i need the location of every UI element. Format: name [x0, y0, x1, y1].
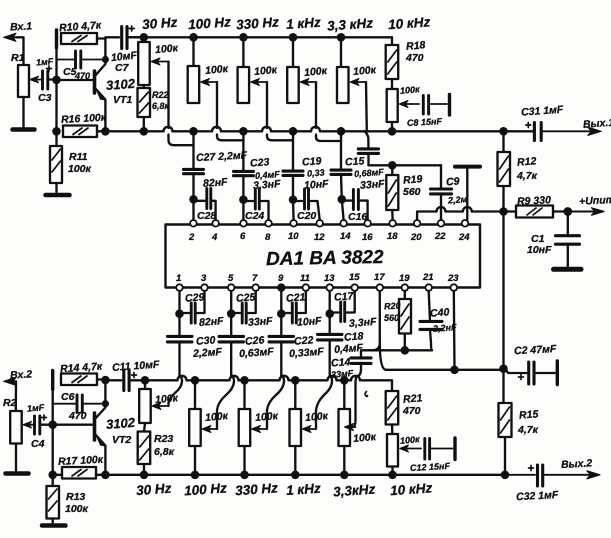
resistor 100к under R18: [391, 79, 393, 89]
capacitor C25 33нF loop to pin 7: [231, 291, 256, 313]
ground under R2: [6, 471, 29, 476]
svg-text:24: 24: [458, 232, 470, 243]
svg-text:R13: R13: [66, 491, 85, 503]
R2 wiper arrow: [27, 424, 35, 426]
svg-text:100к: 100к: [254, 64, 278, 78]
capacitor C28 82нF loop to pin 4: [194, 201, 216, 220]
wiper wire 1kHz down to band D cap: [315, 82, 317, 128]
wire line D to C2 junction: [386, 369, 504, 371]
capacitor C22 0,33мF: [280, 314, 282, 336]
svg-text:560: 560: [403, 186, 421, 198]
band E series capacitor (3,3kHz): [358, 147, 378, 150]
connector C22 to 330Hz wiper: [267, 376, 284, 430]
svg-text:+Uпит: +Uпит: [579, 194, 611, 208]
resistor R11 body (100k to ground): [50, 146, 62, 183]
svg-text:82нF: 82нF: [199, 315, 225, 329]
svg-text:R15: R15: [519, 408, 539, 421]
svg-text:1 кHz: 1 кHz: [286, 481, 322, 498]
svg-text:8: 8: [265, 232, 271, 243]
capacitor C3 (1mF electrolytic): [41, 71, 44, 89]
R14 left terminal bar: [51, 371, 54, 390]
svg-text:33нF: 33нF: [248, 315, 274, 329]
wire R2 to ground: [15, 444, 17, 472]
band B bottom column pin5: [230, 291, 232, 314]
resistor R1 body: [18, 65, 29, 97]
svg-text:С12 15нF: С12 15нF: [410, 461, 451, 473]
svg-text:30 Hz: 30 Hz: [142, 15, 178, 32]
capacitor C17 3,3нF loop to pin 15: [330, 291, 355, 313]
wire R1 to ground: [22, 97, 24, 127]
capacitor C26 0,63мF: [230, 314, 232, 336]
capacitor C8 15nF: [422, 96, 425, 115]
resistor R19 560 body: [391, 165, 393, 175]
resistor R2 body: [10, 411, 22, 444]
resistor R16 body (100k in bus): [63, 126, 97, 138]
capacitor C32 1мF in ch2 output: [505, 474, 535, 476]
ch1 output bus y=131.3: [97, 130, 164, 132]
svg-text:15: 15: [349, 272, 360, 283]
potentiometer 330Hz ch2 body: [243, 380, 245, 409]
svg-text:10 кHz: 10 кHz: [390, 480, 433, 498]
svg-text:С25: С25: [236, 291, 256, 304]
connector C26 to 100Hz wiper: [217, 376, 234, 430]
svg-text:19: 19: [399, 273, 410, 284]
svg-text:82нF: 82нF: [203, 176, 229, 190]
svg-text:330 Hz: 330 Hz: [235, 480, 279, 498]
ground under R13: [42, 523, 66, 528]
capacitor C12 15нF: [423, 439, 426, 460]
ground under R11: [46, 193, 70, 198]
svg-text:R23: R23: [154, 433, 173, 445]
svg-text:С19: С19: [302, 155, 322, 168]
svg-text:3,3 кHz: 3,3 кHz: [327, 15, 374, 33]
svg-text:3,3нF: 3,3нF: [253, 178, 282, 192]
capacitor C14 33мF: [351, 356, 371, 359]
svg-text:R17 100к: R17 100к: [58, 454, 104, 468]
supply arrow +Uпит: [568, 211, 596, 213]
wiper arrow on 100к (10kHz): [404, 103, 419, 105]
wire R12 column down: [502, 212, 504, 369]
wiper wire 30Hz down to band A cap: [167, 62, 169, 129]
svg-text:4: 4: [211, 232, 218, 243]
R10 left terminal bar: [55, 30, 58, 48]
capacitor C15 0,68мF: [331, 169, 351, 172]
transistor VT1 (KT3102): [93, 71, 97, 93]
svg-text:С40: С40: [430, 306, 450, 319]
potentiometer 100Hz (100k) body: [192, 37, 194, 66]
capacitor C2 47мF: [504, 369, 527, 373]
svg-text:16: 16: [362, 232, 373, 243]
capacitor C21 10нF loop to pin 11: [281, 291, 306, 313]
svg-text:3,3кHz: 3,3кHz: [333, 482, 376, 500]
svg-text:Вых.2: Вых.2: [561, 457, 593, 471]
svg-text:100к: 100к: [68, 163, 92, 175]
svg-text:6,8к: 6,8к: [154, 446, 175, 458]
top bus wire from C7 to R18: [129, 37, 392, 45]
svg-text:R20: R20: [384, 300, 401, 311]
svg-text:С21: С21: [286, 291, 306, 304]
svg-text:0,33: 0,33: [307, 167, 325, 178]
svg-text:С17: С17: [334, 290, 355, 303]
svg-text:R19: R19: [403, 173, 423, 187]
30Hz wiper arrow: [156, 61, 169, 63]
svg-text:6: 6: [240, 231, 246, 242]
band D bottom column pin13: [329, 291, 331, 314]
svg-text:R21: R21: [403, 392, 423, 405]
band C bottom column pin9: [280, 291, 282, 314]
svg-text:4,7к: 4,7к: [517, 424, 539, 436]
wire input to R1: [16, 37, 24, 65]
svg-text:17: 17: [374, 272, 385, 283]
output arrow Вых.1: [588, 127, 601, 135]
svg-text:DA1 BA 3822: DA1 BA 3822: [266, 247, 384, 270]
resistor R15 4,7к body: [502, 369, 504, 403]
resistor R17 body (100k in ch2 bus): [62, 467, 96, 479]
svg-text:С20: С20: [297, 210, 316, 222]
svg-text:С32 1мF: С32 1мF: [516, 489, 559, 503]
svg-text:3,3нF: 3,3нF: [349, 316, 378, 330]
svg-text:10нF: 10нF: [297, 315, 323, 329]
svg-text:100к: 100к: [304, 65, 328, 79]
op-amp IC DA1 body: [166, 225, 481, 288]
IC bottom pin circles: [176, 284, 457, 291]
svg-text:С28: С28: [197, 210, 216, 222]
IC top pin numbers 2..24: [188, 231, 470, 243]
svg-text:100к: 100к: [400, 434, 421, 446]
resistor R13 body (100k to ground): [47, 486, 60, 519]
svg-text:2: 2: [188, 232, 195, 243]
node column x=56.5 with junction: [55, 48, 57, 131]
pin 17 column with lines C and D: [361, 291, 380, 358]
svg-text:100к: 100к: [353, 431, 377, 445]
input terminal Вх.2 arrow: [7, 380, 16, 382]
node band A: [190, 196, 196, 202]
svg-text:10: 10: [288, 231, 299, 242]
svg-text:Вх.2: Вх.2: [10, 368, 33, 381]
band B column wire: [242, 131, 244, 171]
pin 23 column: [453, 291, 456, 370]
svg-text:100к: 100к: [155, 42, 179, 56]
svg-text:R22: R22: [152, 90, 169, 100]
svg-text:2,2м: 2,2м: [447, 194, 468, 205]
svg-text:560: 560: [384, 313, 399, 323]
band A bottom column pin1: [178, 291, 180, 314]
svg-text:100к: 100к: [65, 503, 89, 515]
svg-text:0,68мF: 0,68мF: [354, 167, 385, 179]
svg-text:470: 470: [68, 410, 87, 422]
capacitor C7 (10mF) in top bus: [105, 36, 119, 38]
svg-text:22: 22: [434, 231, 446, 242]
svg-text:3102: 3102: [106, 415, 137, 432]
svg-text:100к: 100к: [353, 64, 377, 78]
R1 wiper arrow: [34, 79, 43, 81]
svg-text:14: 14: [340, 231, 351, 242]
capacitor C31 1мF in ch1 output: [533, 123, 536, 141]
node band D: [339, 196, 345, 202]
svg-text:30 Hz: 30 Hz: [136, 481, 172, 498]
resistor R10 body: [61, 33, 97, 44]
svg-text:21: 21: [422, 272, 434, 283]
svg-text:0,33мF: 0,33мF: [289, 346, 325, 360]
svg-text:100к: 100к: [205, 410, 229, 424]
capacitor C1 10нF: [567, 212, 569, 236]
svg-text:470: 470: [74, 71, 90, 81]
svg-text:R11: R11: [69, 151, 88, 163]
svg-text:Вх.1: Вх.1: [10, 20, 33, 33]
potentiometer 30Hz ch2 body: [144, 380, 146, 389]
svg-text:1: 1: [176, 273, 181, 284]
input terminal Вх.1 arrow: [7, 36, 16, 38]
capacitor C6 470: [53, 403, 77, 405]
svg-text:С9: С9: [446, 175, 461, 188]
stray mark: [365, 392, 367, 397]
capacitor C4 (1mF electrolytic): [33, 416, 36, 434]
svg-text:10нF: 10нF: [527, 244, 552, 256]
svg-text:С3: С3: [38, 92, 52, 104]
node band B: [240, 197, 246, 203]
svg-text:1 кHz: 1 кHz: [286, 15, 322, 32]
svg-text:9: 9: [278, 273, 284, 284]
potentiometer 30Hz (100k) body: [143, 37, 145, 42]
potentiometer 3,3kHz ch2 body: [343, 380, 345, 409]
capacitor C9 2,2м: [440, 165, 442, 188]
svg-text:3: 3: [201, 273, 207, 284]
svg-text:0,4мF: 0,4мF: [334, 342, 364, 356]
svg-text:33нF: 33нF: [360, 178, 386, 192]
svg-text:Вых.1: Вых.1: [583, 117, 611, 131]
transistor VT2 (KT3102): [93, 413, 97, 440]
svg-text:С6: С6: [61, 391, 75, 403]
connector C18 to 1kHz wiper: [316, 376, 332, 430]
svg-text:20: 20: [410, 232, 422, 243]
capacitor C18 0,4мF: [329, 314, 331, 334]
resistor R14 body: [61, 374, 97, 386]
svg-text:2,2нF: 2,2нF: [432, 322, 458, 334]
wiper arrow on 100к (10kHz ch2): [405, 448, 422, 450]
capacitor C24 loop to pin 8: [243, 201, 268, 220]
svg-text:100к: 100к: [155, 392, 179, 406]
svg-text:100 Hz: 100 Hz: [184, 480, 228, 498]
svg-text:11: 11: [300, 273, 310, 284]
svg-text:6,8к: 6,8к: [152, 101, 170, 111]
svg-text:7: 7: [252, 273, 258, 284]
svg-text:470: 470: [405, 52, 424, 64]
wire line C: [366, 349, 432, 351]
capacitor C5 470: [57, 59, 76, 61]
svg-text:10 кHz: 10 кHz: [388, 14, 431, 32]
capacitor C27 2,2мF: [184, 168, 204, 171]
svg-text:100 Hz: 100 Hz: [188, 14, 232, 32]
svg-text:R1: R1: [11, 52, 25, 64]
svg-text:С24: С24: [245, 210, 264, 222]
band A column wire: [192, 131, 194, 169]
svg-text:3102: 3102: [106, 76, 137, 93]
potentiometer 1kHz ch2 body: [294, 380, 296, 409]
svg-text:С4: С4: [31, 438, 45, 450]
svg-text:100к: 100к: [305, 410, 329, 424]
capacitor C23 0,4мF: [234, 170, 254, 173]
capacitor C16 loop to pin 16: [342, 201, 368, 220]
svg-text:R12: R12: [517, 155, 537, 168]
svg-text:R18: R18: [406, 39, 426, 53]
potentiometer 3,3kHz (100k) body: [340, 37, 342, 67]
IC top pin circles: [190, 220, 468, 227]
potentiometer 100Hz ch2 body: [194, 380, 196, 409]
node column x=52.7 ch2: [52, 390, 54, 475]
svg-text:23: 23: [447, 273, 459, 284]
capacitor C19 0,33: [283, 170, 303, 173]
svg-text:100к: 100к: [205, 63, 229, 77]
svg-text:12: 12: [314, 232, 325, 243]
svg-text:С15: С15: [345, 155, 365, 168]
node band C: [290, 197, 296, 203]
svg-text:R9 330: R9 330: [517, 194, 552, 208]
svg-text:2,2мF: 2,2мF: [192, 346, 223, 360]
resistor R9 330 body: [504, 210, 517, 212]
capacitor C30 2,2мF: [178, 314, 180, 336]
svg-text:С8 15нF: С8 15нF: [407, 116, 443, 128]
wiper wire 3,3kHz down to band E cap: [365, 82, 368, 131]
svg-text:470: 470: [402, 405, 421, 417]
svg-text:С7: С7: [115, 62, 130, 74]
svg-text:5: 5: [228, 273, 234, 284]
svg-text:4,7к: 4,7к: [516, 170, 538, 182]
svg-text:18: 18: [387, 231, 398, 242]
capacitor C40 2,2нF: [429, 291, 430, 321]
ch2 bus junction dots: [141, 472, 147, 478]
svg-text:С23: С23: [250, 156, 270, 169]
wire input to R2: [15, 381, 18, 411]
svg-text:10нF: 10нF: [304, 178, 330, 192]
ground under R1: [13, 127, 35, 132]
potentiometer 1kHz (100k) body: [292, 37, 294, 67]
svg-text:1мF: 1мF: [27, 402, 45, 413]
ch2 crossing bus y=380.3: [145, 379, 178, 381]
connector C30 to 30Hz wiper: [169, 376, 183, 407]
connector C14 to 3,3kHz wiper: [352, 377, 357, 428]
band D column wire: [340, 131, 342, 169]
wiper wire 330Hz down to band C cap: [266, 82, 268, 128]
terminal bar above pin 24: [455, 165, 480, 169]
svg-text:1мF: 1мF: [36, 56, 54, 67]
svg-text:R16 100к: R16 100к: [61, 112, 107, 126]
resistor R22 6,8к body: [143, 85, 145, 88]
svg-text:330 Hz: 330 Hz: [236, 14, 280, 32]
svg-text:С2 47мF: С2 47мF: [514, 343, 557, 357]
ground under C1: [554, 267, 582, 272]
resistor 100к under R21: [391, 425, 394, 435]
resistor R12 4,7к body: [502, 131, 504, 152]
svg-text:13: 13: [324, 273, 335, 284]
capacitor C11 (10mF) in ch2 crossing bus: [105, 379, 121, 381]
svg-text:0,63мF: 0,63мF: [239, 346, 275, 360]
resistor R20 560 body: [404, 291, 406, 299]
capacitor C20 10нF loop to pin 12: [293, 201, 320, 220]
wire line A: [369, 164, 442, 166]
output arrow Вых.2: [587, 471, 600, 479]
resistor R21 470 body: [386, 391, 399, 425]
svg-text:100к: 100к: [255, 410, 279, 424]
resistor R23 6,8к body: [144, 423, 145, 432]
resistor R18 470 body: [386, 45, 399, 79]
svg-text:100к: 100к: [400, 84, 421, 96]
capacitor C29 82нF loop to pin 3: [180, 291, 205, 313]
svg-text:С29: С29: [185, 291, 205, 304]
svg-text:R2: R2: [3, 397, 17, 409]
wire line B pin20 to R12 column: [417, 212, 436, 221]
band C column wire: [292, 131, 294, 170]
potentiometer 330Hz (100k) body: [242, 37, 244, 67]
IC bottom pin numbers 1..23: [176, 272, 459, 284]
svg-text:VT1: VT1: [113, 94, 132, 106]
svg-text:VT2: VT2: [112, 434, 131, 446]
wiper wire 100Hz down to band B cap: [216, 82, 218, 128]
svg-text:С16: С16: [348, 211, 367, 223]
